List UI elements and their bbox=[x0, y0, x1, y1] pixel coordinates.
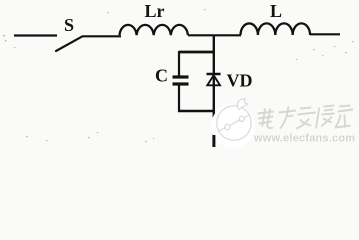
wire: capacitor upper lead bbox=[178, 51, 180, 76]
watermark chinese text (stylized strokes) bbox=[256, 106, 353, 129]
svg-text:L: L bbox=[270, 1, 282, 21]
svg-text:Lr: Lr bbox=[145, 1, 165, 21]
capacitor C plates bbox=[173, 75, 189, 78]
svg-text:VD: VD bbox=[227, 71, 253, 91]
wire: Lr to node A bbox=[188, 34, 241, 36]
svg-text:www.elecfans.com: www.elecfans.com bbox=[253, 133, 355, 145]
wire: switch to Lr bbox=[82, 35, 121, 37]
svg-text:C: C bbox=[155, 66, 168, 86]
wire: L to right output bbox=[310, 33, 340, 35]
wire: capacitor lower lead bbox=[178, 86, 180, 113]
switch S blade bbox=[56, 37, 82, 51]
inductor Lr bbox=[120, 25, 188, 35]
diode VD cathode bar bbox=[207, 73, 221, 76]
diode VD triangle bbox=[207, 75, 220, 85]
node A: junction vertical line down bbox=[213, 36, 215, 148]
noise specks bbox=[3, 9, 353, 142]
wire: capacitor branch bottom rail bbox=[178, 110, 215, 113]
wire: lower output stub (below watermark) bbox=[212, 135, 215, 147]
svg-text:S: S bbox=[64, 15, 74, 35]
inductor L bbox=[241, 23, 311, 35]
wire: left input segment bbox=[14, 34, 57, 36]
wire: capacitor branch top rail bbox=[179, 51, 214, 54]
watermark logo circle bbox=[211, 99, 255, 148]
